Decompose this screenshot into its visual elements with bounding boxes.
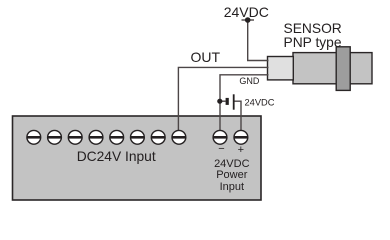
svg-text:PNP type: PNP type — [284, 35, 342, 50]
svg-text:24VDC: 24VDC — [214, 158, 250, 170]
svg-text:SENSOR: SENSOR — [284, 21, 342, 36]
svg-text:Power: Power — [216, 169, 248, 181]
svg-text:24VDC: 24VDC — [224, 4, 269, 20]
svg-text:−: − — [218, 143, 224, 155]
svg-text:GND: GND — [239, 76, 260, 86]
svg-text:+: + — [238, 144, 244, 156]
svg-text:Input: Input — [220, 181, 244, 193]
svg-text:OUT: OUT — [191, 49, 221, 65]
svg-text:DC24V Input: DC24V Input — [77, 149, 156, 164]
svg-text:24VDC: 24VDC — [245, 98, 275, 108]
